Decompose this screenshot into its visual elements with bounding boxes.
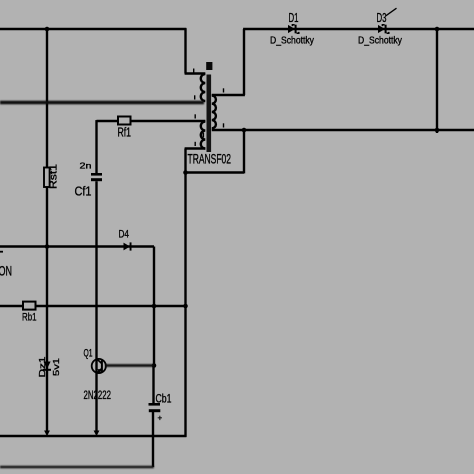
capacitor Cf1 bbox=[91, 173, 102, 176]
wire vertical x=185.5 from top rail down to primary top pin bbox=[184, 28, 186, 73]
wire vertical x=437 bbox=[436, 29, 438, 133]
wire thick soft net y=102.5 (blurred) bbox=[0, 103, 204, 468]
wire vertical x=154 D4 to base node bbox=[153, 247, 155, 366]
svg-text:2N2222: 2N2222 bbox=[84, 388, 112, 402]
node junction (47,29) bbox=[45, 27, 50, 32]
transformer primary winding arcs bbox=[201, 74, 206, 101]
node junction (47,246.5) bbox=[45, 244, 50, 249]
resistor Rst1 bbox=[44, 168, 50, 188]
node junction (185.5,172.5) bbox=[183, 170, 188, 175]
svg-text:D4: D4 bbox=[119, 229, 130, 241]
svg-text:Dz1: Dz1 bbox=[37, 356, 47, 377]
node junction (244,130) bbox=[242, 128, 247, 133]
wire Rb1 net y=306 bbox=[0, 305, 186, 307]
svg-text:Cf1: Cf1 bbox=[75, 184, 92, 199]
wire ON net y=246.5 bbox=[0, 245, 154, 247]
pin 3 tick bbox=[195, 114, 196, 118]
transistor Q1 bbox=[92, 359, 106, 373]
wire vertical x=96.5 Cf1 bottom to Q1 collector and emitter to bottom rail bbox=[95, 181, 97, 431]
wire vertical x=244 loop to secondary bottom rail bbox=[243, 130, 245, 174]
pin 4 tick bbox=[195, 142, 196, 146]
wire Q1 base thick y=365.5 bbox=[105, 364, 154, 367]
capacitor Cb1 bbox=[149, 403, 161, 406]
diode D4 bbox=[124, 243, 131, 251]
D3 slash mark bbox=[386, 8, 397, 16]
transformer TRANSF02 core bbox=[207, 75, 212, 153]
svg-text:+: + bbox=[158, 414, 163, 423]
pin 2 tick bbox=[194, 95, 195, 99]
transformer polarity blob bbox=[206, 62, 212, 70]
wire vertical x=153.5 base node to Cb1 bbox=[152, 366, 154, 404]
pin 1 tick bbox=[193, 69, 194, 73]
svg-text:5v1: 5v1 bbox=[51, 358, 61, 376]
svg-text:Rst1: Rst1 bbox=[49, 163, 60, 189]
pin 6 tick bbox=[223, 123, 224, 127]
wire vertical x=185.5 from feedback winding bottom to bottom rail bbox=[184, 149, 186, 437]
svg-text:D_Schottky: D_Schottky bbox=[270, 35, 315, 47]
node junction (437,29) bbox=[435, 27, 440, 32]
wire vertical x=244 secondary top to D1 rail bbox=[243, 29, 245, 95]
wire primary top pin y=73.5 bbox=[185, 72, 206, 74]
svg-text:Cb1: Cb1 bbox=[156, 392, 172, 406]
wire top-left rail y=29 bbox=[0, 28, 186, 30]
svg-text:ON: ON bbox=[0, 263, 12, 279]
wire bottom rail y=436 bbox=[0, 435, 186, 438]
wire feedback top pin y=121 bbox=[97, 120, 206, 122]
transformer secondary winding arcs bbox=[212, 96, 216, 129]
junction arrow at (47,436) bbox=[44, 431, 50, 437]
svg-text:Q1: Q1 bbox=[84, 348, 93, 360]
node junction (437,130) bbox=[435, 128, 440, 133]
wire secondary top pin y=95 bbox=[212, 94, 245, 96]
pin 3 tick lower bbox=[203, 133, 205, 138]
diode D1 bbox=[288, 25, 295, 33]
transformer feedback winding arcs bbox=[201, 122, 206, 149]
svg-text:2n: 2n bbox=[80, 161, 92, 171]
wire feedback bottom pin y=148.5 bbox=[185, 147, 206, 149]
node junction (154,306) bbox=[152, 304, 157, 309]
svg-text:D1: D1 bbox=[289, 10, 299, 25]
zener diode Dz1 bbox=[43, 362, 50, 370]
net label tick at left edge bbox=[0, 251, 3, 253]
wire bottom soft gray rail y=467 bbox=[0, 466, 154, 469]
svg-text:Rb1: Rb1 bbox=[22, 312, 37, 324]
wire loop bottom y=172.5 bbox=[186, 171, 245, 173]
svg-text:D_Schottky: D_Schottky bbox=[358, 35, 403, 47]
svg-text:TRANSF02: TRANSF02 bbox=[188, 152, 232, 167]
junction arrow at (96.5,436) bbox=[94, 431, 100, 437]
wire vertical x=153 Cb1 to bottom gray rail bbox=[152, 412, 154, 467]
wire vertical x=96.5 down to Cf1 bbox=[95, 120, 97, 173]
resistor Rb1 bbox=[23, 302, 36, 310]
node junction (154,365.5) bbox=[152, 363, 157, 368]
diode D3 bbox=[378, 25, 385, 33]
pin 5 tick bbox=[223, 88, 224, 92]
resistor Rf1 bbox=[118, 117, 131, 125]
node junction (186,306) bbox=[183, 304, 188, 309]
wire secondary bottom rail y=130 bbox=[212, 129, 474, 131]
wire top-right rail y=29 bbox=[243, 28, 474, 30]
svg-text:D3: D3 bbox=[377, 10, 387, 25]
svg-text:Rf1: Rf1 bbox=[118, 126, 132, 140]
wire vertical x=47 from top rail to bottom rail bbox=[46, 29, 48, 432]
